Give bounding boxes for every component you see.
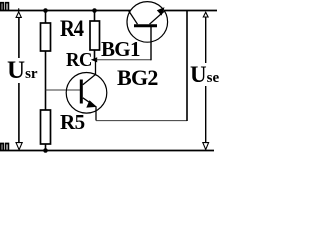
wire top rail left bbox=[0, 10, 130, 12]
label R5 bbox=[60, 112, 85, 133]
node RC top junction bbox=[92, 8, 97, 13]
label BG1 bbox=[101, 39, 140, 60]
wire R5 to bottom rail bbox=[45, 144, 47, 151]
wire Use vertical bbox=[205, 17, 207, 142]
transistor BG1 collector bbox=[129, 11, 138, 24]
wire rail to R4 bbox=[45, 11, 47, 24]
transistor BG1 emitter arrowhead bbox=[157, 7, 165, 15]
node bottom junction bbox=[43, 148, 48, 153]
label Usr bbox=[7, 58, 38, 83]
node divider top junction bbox=[43, 8, 48, 13]
Usr terminal arrow up bbox=[16, 8, 21, 17]
label Use bbox=[190, 63, 219, 86]
transistor BG1 base bar bbox=[134, 24, 157, 27]
wire Usr vertical bbox=[18, 17, 20, 142]
resistor R4 bbox=[41, 23, 51, 51]
wire right vertical bbox=[186, 11, 188, 122]
wire bottom rail bbox=[0, 150, 214, 152]
transistor BG2 base bar bbox=[80, 80, 83, 104]
resistor R5 bbox=[41, 110, 51, 144]
transistor BG2 circle bbox=[66, 73, 107, 114]
wire RC to collector node bbox=[94, 50, 96, 60]
transistor BG2 collector bbox=[83, 60, 96, 85]
label R4 bbox=[60, 17, 83, 40]
transistor BG1 circle bbox=[127, 2, 168, 43]
Use terminal arrow up bbox=[203, 12, 208, 17]
wire top rail right bbox=[164, 10, 217, 12]
transistor BG2 emitter bbox=[83, 98, 96, 121]
Use terminal arrow down bbox=[203, 143, 209, 150]
transistor BG1 emitter bbox=[150, 11, 165, 25]
pulse source symbol top-left bbox=[1, 3, 9, 11]
wire BG1 base vertical bbox=[150, 27, 152, 60]
wire BG1 base horizontal bbox=[97, 59, 152, 61]
node collector junction arrow bbox=[91, 57, 97, 62]
wire emitter to right vertical bbox=[96, 120, 187, 122]
wire R4 to R5 bbox=[45, 51, 47, 110]
transistor BG2 emitter arrowhead bbox=[86, 100, 97, 107]
label RC bbox=[66, 50, 92, 70]
pulse source symbol bottom-left bbox=[1, 144, 9, 151]
Usr terminal arrow down bbox=[16, 143, 22, 150]
label BG2 bbox=[117, 67, 158, 89]
resistor RC bbox=[90, 21, 100, 50]
wire rail to RC bbox=[94, 11, 96, 22]
wire BG2 base horizontal bbox=[46, 89, 81, 91]
